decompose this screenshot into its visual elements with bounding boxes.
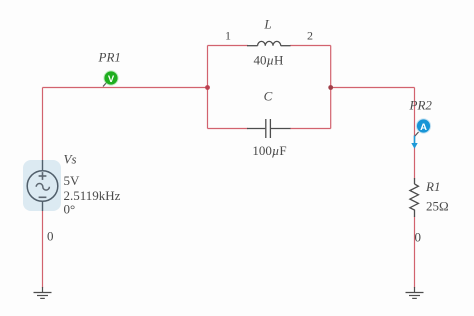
wire: right vertical upper (to resistor) — [414, 88, 416, 180]
probe PR1 (voltage) — [103, 70, 119, 86]
wire: tank left vertical — [207, 46, 209, 129]
selection highlight around Vs — [23, 160, 61, 211]
svg-text:PR1: PR1 — [98, 50, 121, 65]
inductor L coil — [247, 41, 291, 45]
wire: right horizontal from tank to right branch — [331, 87, 415, 89]
minus sign — [39, 196, 47, 198]
svg-text:0: 0 — [47, 229, 54, 244]
svg-text:Vs: Vs — [64, 152, 77, 167]
junction node right (330.7,87) — [328, 85, 333, 90]
svg-text:L: L — [263, 17, 271, 32]
current direction arrow — [411, 136, 417, 149]
svg-text:2: 2 — [307, 29, 313, 43]
svg-text:C: C — [264, 89, 273, 104]
resistor R1 — [410, 178, 419, 217]
ground (left) — [34, 287, 52, 298]
svg-text:25Ω: 25Ω — [426, 199, 449, 214]
wire: tank bottom edge right segment — [290, 128, 331, 130]
probe PR2 (current) — [415, 118, 432, 136]
capacitor C — [247, 119, 291, 138]
wire: tank top edge left segment — [208, 45, 249, 47]
wire: left vertical from top node down to source — [42, 88, 44, 161]
svg-text:V: V — [108, 74, 115, 85]
voltage source Vs symbol — [27, 160, 58, 211]
svg-text:0°: 0° — [64, 202, 76, 217]
svg-text:A: A — [420, 122, 427, 133]
svg-text:PR2: PR2 — [409, 98, 433, 113]
sine wave — [36, 184, 49, 191]
wire: left vertical lower (source to ground) — [42, 211, 44, 288]
svg-text:0: 0 — [415, 230, 422, 245]
svg-text:1: 1 — [225, 29, 231, 43]
wire: tank right vertical — [330, 46, 332, 129]
svg-text:R1: R1 — [425, 179, 440, 194]
wire: right vertical lower (resistor to ground) — [414, 217, 416, 289]
ground (right) — [406, 287, 424, 298]
svg-text:40µH: 40µH — [254, 53, 284, 68]
plus sign — [39, 175, 47, 177]
svg-text:100µF: 100µF — [252, 143, 286, 158]
wire: tank top edge right segment — [290, 45, 331, 47]
junction node left (207.5,87) — [205, 85, 210, 90]
wire: left horizontal to tank left junction — [43, 87, 208, 89]
wire: tank bottom edge left segment — [208, 128, 249, 130]
svg-text:5V: 5V — [64, 173, 81, 188]
